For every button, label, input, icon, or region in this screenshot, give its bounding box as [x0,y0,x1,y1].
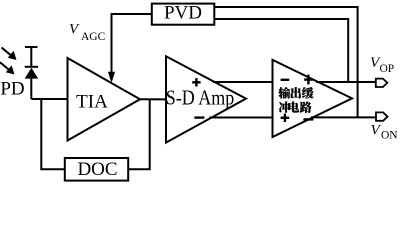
S-D Amp triangle U2 [166,56,246,142]
wire input node down to DOC left [41,99,65,169]
light arrow 1 [2,48,13,57]
light arrow 2 [0,62,10,70]
buffer in- sign [281,79,290,81]
wire PD to TIA input [31,98,67,100]
wire buffer out- to V_ON port [311,116,376,118]
photodiode PD arrow symbol [25,68,39,79]
wire PVD right outer to V_ON line [214,7,357,117]
buffer out+ sign [304,75,312,85]
V_AGC arrowhead onto TIA [108,72,115,83]
output buffer triangle U3 [273,60,353,137]
wire PVD right inner to V_OP line [214,19,348,82]
S-D output + sign [192,78,200,86]
photodiode PD anode wire [30,78,32,99]
wire buffer out+ to V_OP port [316,81,376,83]
svg-text:S-D Amp: S-D Amp [166,86,235,110]
S-D output - sign [194,116,204,118]
photodiode PD cathode wire [30,47,32,67]
wire TIA output to S-D Amp input [140,98,166,100]
PVD box U4 [152,4,215,25]
photodiode PD cathode bar [25,66,38,68]
svg-text:PVD: PVD [164,2,202,23]
V_ON port pentagon [376,112,388,120]
wire S-D out- to buffer in+ [210,117,273,119]
buffer out- sign [303,118,313,120]
V_OP port pentagon [376,79,388,87]
wire S-D out+ to buffer in- [213,81,273,83]
svg-text:OP: OP [380,63,395,75]
wire TIA output node down to DOC right [128,99,150,169]
buffer in+ sign [281,114,290,122]
DOC box U5 [65,158,128,181]
svg-text:ON: ON [381,129,398,141]
svg-text:TIA: TIA [76,91,108,112]
buffer label 输出缓冲电路 [278,87,290,99]
svg-text:AGC: AGC [81,31,106,43]
TIA triangle U1 [68,58,141,141]
wire PVD left to V_AGC arrow [112,14,152,74]
svg-text:PD: PD [0,79,24,100]
svg-text:DOC: DOC [77,159,117,180]
photodiode PD top terminal [25,46,38,48]
